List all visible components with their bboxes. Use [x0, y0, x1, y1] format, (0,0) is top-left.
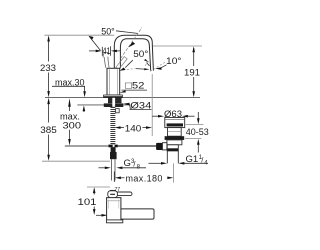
svg-text:191: 191: [184, 67, 200, 78]
top extension line (spout top, for 233): [44, 34, 114, 36]
side view: dimension 101: [87, 186, 110, 188]
svg-text:300: 300: [63, 120, 82, 131]
side view: body: [107, 198, 121, 223]
drain neck: [168, 128, 182, 137]
dimension G 3/8 (hose thread): [99, 167, 147, 170]
dimension max.180: [114, 172, 173, 183]
side view: base shelf: [106, 220, 122, 223]
svg-text:40-53: 40-53: [186, 127, 209, 138]
tailpipe: [166, 151, 168, 164]
drain body: [167, 140, 182, 145]
faucet: spout arch outer: [114, 35, 153, 70]
threaded rod (dashed): [110, 107, 115, 144]
handle (solid, joystick lever): [103, 52, 109, 68]
flexible hose: [111, 159, 113, 180]
dimension Ø63: [152, 115, 194, 118]
small fitting right of rod: [116, 109, 120, 113]
svg-text:50°: 50°: [101, 26, 115, 37]
right top extension line (outlet level, for 191): [153, 45, 202, 47]
svg-text:140: 140: [125, 124, 142, 135]
taper ring: [167, 145, 178, 151]
svg-text:10°: 10°: [166, 56, 182, 67]
under-deck shank (hatched dark): [108, 98, 122, 104]
deck / counter top line: [45, 96, 200, 98]
mounting nut: [104, 103, 124, 107]
extension line at hose end (385 bottom reference): [42, 160, 110, 162]
svg-text:101: 101: [78, 197, 97, 208]
dimension 140 (spout reach): [115, 126, 152, 129]
side view: knob: [108, 191, 118, 198]
dimension 41: [89, 46, 121, 56]
pop-up rod (horizontal): [65, 145, 108, 147]
svg-text:385: 385: [40, 125, 57, 136]
dimension G 1 1/4 (tailpipe thread): [149, 162, 209, 165]
dimension max.300 (left, below deck): [68, 98, 71, 145]
svg-text:max.180: max.180: [126, 173, 163, 183]
deck bottom line: [77, 104, 130, 106]
pop-up waste: flange: [165, 118, 185, 128]
svg-text:50°: 50°: [133, 49, 148, 60]
side view: lever: [116, 192, 132, 196]
drain centerline extension: [173, 163, 175, 182]
rod-to-pop-up junction: [108, 145, 117, 148]
dimension 40-53: [185, 112, 204, 153]
faucet body: [107, 68, 120, 95]
side port: [162, 143, 167, 150]
hose fitting: [110, 152, 117, 159]
outlet centerline extension: [151, 74, 153, 136]
dimension 233: [47, 35, 50, 97]
dimension 385: [47, 98, 50, 161]
dashed handle alternate position: [116, 57, 127, 70]
side view: spout tube: [119, 209, 155, 219]
dashed spout swivel arc: [123, 60, 166, 71]
svg-text:G1: G1: [186, 154, 199, 165]
drain nut: [165, 136, 185, 140]
dimension 191: [192, 46, 195, 97]
base plate: [104, 95, 123, 97]
svg-text:G: G: [124, 158, 131, 169]
faucet: spout arch inner: [120, 39, 150, 71]
svg-text:41: 41: [103, 46, 111, 57]
svg-text:233: 233: [40, 63, 56, 74]
